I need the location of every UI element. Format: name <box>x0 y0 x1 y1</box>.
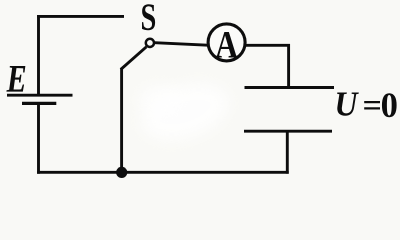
wire switch vertical <box>120 68 123 172</box>
wire capacitor bottom to bottom rail <box>286 130 289 174</box>
svg-text:S: S <box>141 0 157 39</box>
capacitor top plate <box>245 86 335 89</box>
junction node dot <box>116 167 127 178</box>
switch S contact circle <box>146 39 154 47</box>
battery E short plate <box>22 102 56 105</box>
wire bottom horizontal <box>37 171 289 174</box>
wire top horizontal <box>37 15 124 18</box>
svg-text:E: E <box>6 57 27 101</box>
svg-text:0: 0 <box>381 86 398 126</box>
wire ammeter to capacitor top <box>245 45 288 88</box>
switch S arm diagonal <box>121 47 147 70</box>
wire switch to ammeter <box>155 43 208 46</box>
battery E long plate <box>7 94 73 97</box>
svg-text:A: A <box>215 24 238 67</box>
capacitor bottom plate <box>244 130 332 133</box>
wire left lower vertical <box>37 103 40 173</box>
svg-text:=: = <box>363 89 382 124</box>
svg-text:U: U <box>335 85 360 123</box>
ammeter A body circle <box>208 24 245 61</box>
wire left upper vertical <box>37 15 40 95</box>
